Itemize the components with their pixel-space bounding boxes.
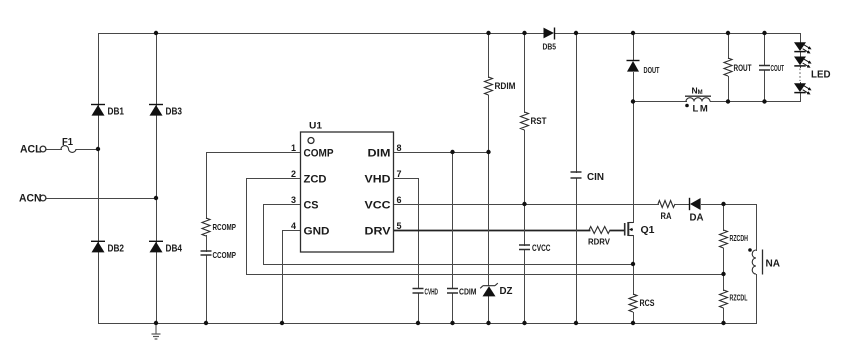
svg-text:CIN: CIN [587,172,604,183]
svg-text:6: 6 [397,195,402,205]
svg-text:2: 2 [291,169,296,179]
diode DB3 [149,104,163,106]
junction dot bottom bus x418 [416,321,420,325]
diode DOUT [627,60,640,62]
terminal ACN [40,195,46,201]
junction dot bottom bus x576 [574,321,578,325]
svg-text:RCS: RCS [640,298,655,308]
svg-text:RZCDH: RZCDH [730,234,749,243]
junction dot top bus CIN tap [574,31,578,35]
capacitor CVHD [413,289,424,294]
junction dot top bus ROUT tap [726,31,730,35]
junction dot ACL tap [96,147,100,151]
terminal ACL [40,146,46,152]
wire ZCD net pin2 [247,179,725,275]
resistor RDIM [485,77,493,95]
inductor NA coil [752,250,756,274]
ground symbol [152,323,161,339]
junction dot top bus at rail x156 [154,31,158,35]
svg-text:NA: NA [766,258,781,270]
junction dot output line COUT [762,99,766,103]
wire DIM net pin8 [395,152,489,154]
junction dot top bus COUT tap [762,31,766,35]
svg-text:CDIM: CDIM [459,287,477,297]
wire RST CVCC column [524,34,526,324]
junction dot bottom bus x156 [154,321,158,325]
junction dot DIM line RDIM tap [486,150,490,154]
resistor RA [658,201,675,208]
svg-text:RDRV: RDRV [588,237,610,247]
svg-text:RST: RST [531,116,547,126]
resistor RZCDH [720,230,728,248]
transistor Q1 [625,222,633,236]
svg-text:DA: DA [690,212,704,224]
wire output line y=101 [634,101,801,103]
junction dot top bus RDIM tap [486,31,490,35]
junction dot DA anode node [721,202,725,206]
LED D3 arrows [803,86,811,94]
svg-text:DOUT: DOUT [644,65,661,75]
svg-text:DB2: DB2 [108,243,125,255]
inductor LM coil [686,98,710,102]
svg-text:CS: CS [304,200,319,212]
wire top bus left segment [99,33,544,35]
wire COUT column [764,34,766,102]
diode DA [689,198,691,210]
junction dot ACN tap [154,196,158,200]
phase dot NA [748,248,752,252]
svg-text:DB5: DB5 [543,42,557,52]
wire DA to NA top [702,205,757,251]
svg-text:ACL: ACL [20,144,42,156]
fuse F1 [61,146,76,153]
wire COMP net pin1 [207,153,301,324]
svg-text:4: 4 [291,221,296,231]
svg-text:8: 8 [397,143,402,153]
svg-text:ZCD: ZCD [304,174,327,186]
svg-text:NM: NM [692,86,703,97]
junction dot CS line Q1 source [631,262,635,266]
diode DB4 [149,240,163,242]
resistor RCOMP [202,218,210,236]
wire VCC net pin6 to RA [395,204,659,206]
zener DZ bar with wings [480,283,498,288]
svg-text:COUT: COUT [771,63,785,73]
svg-text:RA: RA [661,211,672,221]
inductor NA core bar [762,250,764,275]
capacitor CVCC [519,245,530,250]
junction dot DIM line CDIM tap [450,150,454,154]
svg-text:LM: LM [693,103,708,114]
wire VHD net pin7 [395,179,419,324]
diode DB5 [554,28,556,40]
wire RDIM column [488,34,490,153]
svg-text:CVHD: CVHD [425,287,439,297]
svg-text:DB3: DB3 [166,106,183,118]
svg-text:CVCC: CVCC [532,243,551,253]
junction dot output line DOUT [631,99,635,103]
svg-text:DIM: DIM [368,148,391,160]
svg-text:LED: LED [811,69,831,81]
diode DB2 [91,240,105,242]
inductor LM core bar [685,95,711,97]
wire ACN to rail [47,198,157,200]
wire RZCDL column [723,275,725,324]
junction dot bottom bus x524 [522,321,526,325]
capacitor COUT [759,66,770,71]
wire bottom ground bus [99,323,757,325]
wire DOUT column [633,34,635,223]
LED D2 arrows [803,59,811,67]
resistor RCS [629,294,637,312]
resistor RDRV [589,227,610,234]
resistor RST [521,112,529,130]
wire Q1 source to RCS to ground [633,236,635,324]
junction dot top bus RST tap [522,31,526,35]
svg-text:VCC: VCC [365,200,391,212]
svg-text:CCOMP: CCOMP [213,250,237,260]
capacitor CIN [571,172,582,178]
junction dot ZCD divider node [721,272,725,276]
LED D1 arrows [803,45,811,53]
svg-text:DB1: DB1 [108,106,125,118]
junction dot output line ROUT [726,99,730,103]
svg-text:DB4: DB4 [166,243,183,255]
wire CDIM column [452,153,454,324]
svg-text:DZ: DZ [500,286,513,297]
capacitor CCOMP [201,251,212,255]
op-amp U1 IC body [301,132,394,252]
svg-text:5: 5 [397,221,402,231]
junction dot top bus DOUT tap [631,31,635,35]
svg-text:7: 7 [397,169,402,179]
capacitor CDIM [447,289,458,294]
junction dot VCC line CVCC tap [522,202,526,206]
junction dot bottom bus x633 [631,321,635,325]
wire CS net pin3 [264,205,634,265]
wire NA column bottom [756,275,758,324]
zener diode DZ triangle [483,286,496,296]
wire DRV net pin5 [395,230,625,232]
phase dot LM [685,104,689,108]
junction dot bottom bus x452 [450,321,454,325]
svg-text:Q1: Q1 [641,224,655,236]
LED D3 triangle and bar [794,83,806,92]
diode DB1 [91,104,105,106]
svg-text:DRV: DRV [365,226,392,238]
svg-text:RCOMP: RCOMP [213,222,237,232]
svg-text:COMP: COMP [304,148,334,160]
svg-text:3: 3 [291,195,296,205]
LED string dotted gap [799,69,801,82]
wire ROUT column [728,34,730,102]
wire RZCDH column [723,205,725,275]
svg-text:RDIM: RDIM [495,81,516,91]
junction dot bottom bus x206 [204,321,208,325]
wire DZ column [488,153,490,324]
resistor ROUT [724,58,732,76]
wire ACL to F1 to rail [47,149,99,151]
svg-text:RZCDL: RZCDL [730,294,748,303]
svg-text:U1: U1 [309,120,323,131]
wire left rail x=98 [98,34,100,324]
wire LED column [800,34,802,102]
svg-text:ACN: ACN [19,193,42,205]
LED D2 triangle and bar [794,57,806,66]
wire top bus right segment [556,33,801,35]
svg-text:GND: GND [304,226,330,238]
wire rail x=156 [156,34,158,324]
LED D1 triangle and bar [794,42,806,51]
wire RA to DA [676,204,690,206]
junction dot bottom bus x282 [280,321,284,325]
junction dot bottom bus x724 [721,321,725,325]
svg-text:1: 1 [291,143,296,153]
resistor RZCDL [720,290,728,308]
wire CIN column [576,34,578,324]
svg-text:VHD: VHD [365,174,391,186]
junction dot bottom bus x488 [486,321,490,325]
svg-text:ROUT: ROUT [734,63,752,73]
wire GND net pin4 [283,231,301,324]
svg-text:F1: F1 [62,137,73,148]
